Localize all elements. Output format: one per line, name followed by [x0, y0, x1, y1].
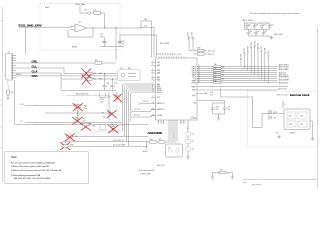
svg-text:File:: File:: [244, 182, 248, 184]
capacitor C47 (DNP): [76, 118, 80, 123]
wire clock into box: [221, 97, 263, 128]
wire y35 branch to IC: [120, 35, 157, 58]
red X over C47: [73, 117, 83, 124]
svg-text:NC7: NC7: [276, 133, 279, 135]
svg-text:R78: R78: [11, 92, 14, 94]
decap bottom rail: [249, 35, 272, 37]
red X over R68: [65, 134, 75, 141]
red X over R70: [81, 123, 91, 130]
IC U13 ADS1294R body: [156, 58, 198, 120]
svg-text:TP24: TP24: [251, 42, 253, 46]
svg-text:DIN: DIN: [194, 102, 196, 104]
svg-text:AGND: AGND: [72, 46, 78, 49]
svg-text:12: 12: [152, 96, 154, 98]
svg-text:57: 57: [175, 53, 177, 55]
red X over R66: [73, 104, 83, 111]
svg-text:C80: C80: [273, 118, 276, 120]
capacitor C41 (DNP): [100, 125, 106, 130]
svg-text:OUT: OUT: [300, 124, 303, 126]
svg-text:DOUT: DOUT: [192, 95, 196, 97]
osc pad 4: [298, 121, 307, 127]
svg-text:R75: R75: [94, 10, 97, 12]
svg-text:C81: C81: [248, 24, 251, 26]
TP DOUT circle: [205, 93, 207, 95]
junction dot output: [92, 27, 93, 28]
svg-text:55: 55: [180, 53, 182, 55]
wire ECG_RLD top: [66, 95, 109, 97]
capacitor C86: [254, 30, 258, 37]
red X over C46: [114, 94, 122, 101]
svg-text:63: 63: [160, 53, 162, 55]
wire R75 row: [80, 12, 105, 14]
capacitor C76: [119, 35, 121, 41]
IC left pin numbers: [152, 61, 154, 116]
svg-text:C82: C82: [256, 24, 259, 26]
svg-text:15: 15: [152, 114, 154, 116]
svg-text:C9: C9: [21, 121, 23, 123]
wire CRA: [16, 75, 61, 77]
resistor R77: [95, 62, 102, 65]
wire ECG row y105.5: [25, 105, 75, 107]
jumper box: [100, 93, 106, 98]
svg-text:62: 62: [162, 53, 164, 55]
svg-text:37: 37: [198, 65, 200, 67]
svg-text:C85: C85: [250, 31, 253, 33]
ground left leg: [211, 177, 215, 179]
wire DOUT to cap branch: [197, 93, 205, 95]
capacitor C67 flag: [130, 116, 132, 118]
svg-text:IN4N: IN4N: [157, 86, 160, 88]
capacitor C87: [262, 30, 266, 37]
IC top pin numbers: [157, 53, 182, 55]
svg-text:10E: 10E: [214, 72, 217, 74]
label resistor column values: [214, 64, 225, 82]
svg-text:TP27: TP27: [261, 46, 263, 50]
svg-text:AVDD_SHDN: AVDD_SHDN: [243, 19, 254, 22]
red X over R69: [61, 142, 71, 150]
svg-text:32: 32: [198, 79, 200, 81]
svg-text:MOD_CLK: MOD_CLK: [173, 132, 175, 138]
wire ECG_SHD vertical: [79, 6, 81, 14]
svg-text:RLDOUT: RLDOUT: [157, 92, 163, 94]
op-amp input stubs: [70, 26, 75, 30]
wire TP loop bottom mid: [139, 169, 154, 171]
capacitor C65 flag: [130, 110, 132, 112]
IC left pin names: [157, 62, 165, 117]
svg-text:IN1P: IN1P: [157, 62, 160, 64]
test point risers: [241, 47, 268, 83]
connector pins: [13, 56, 17, 79]
svg-text:CLK: CLK: [191, 117, 194, 119]
svg-text:R70: R70: [92, 126, 95, 128]
wire gnd rail under caps: [99, 90, 117, 92]
svg-text:C36: C36: [106, 83, 109, 85]
resistor R69 (DNP): [62, 145, 68, 148]
svg-text:C72: C72: [192, 149, 195, 151]
svg-text:61: 61: [165, 53, 167, 55]
ferrite circle: [121, 73, 124, 76]
title block top line: [242, 178, 318, 180]
svg-text:C71: C71: [192, 141, 195, 143]
svg-text:SPI_CS: SPI_CS: [208, 54, 215, 56]
wire cap bottom rail to gnd: [213, 114, 225, 118]
border tick small a: [0, 104, 3, 106]
connector J2 body: [6, 54, 13, 81]
svg-text:ADS_CLK: ADS_CLK: [157, 164, 166, 167]
svg-text:External Clock: External Clock: [290, 93, 310, 97]
svg-text:+: +: [76, 26, 77, 28]
ferrite bead L2: [88, 12, 91, 15]
ground crystal: [186, 157, 190, 159]
svg-text:R66, R64, R72, R62, C47,C41,R7: R66, R64, R72, R62, C47,C41,R70 and R69: [14, 178, 50, 180]
red X over C41: [109, 125, 119, 133]
svg-text:MOD_CLOCK: MOD_CLOCK: [277, 94, 289, 96]
resistor R66 (DNP): [75, 105, 81, 108]
osc pad 3: [287, 121, 296, 127]
wire left drop: [146, 142, 148, 149]
crystal pads: [169, 149, 173, 153]
svg-text:IN3P: IN3P: [157, 77, 160, 79]
wire CLA: [16, 73, 99, 90]
svg-text:EN: EN: [289, 115, 291, 117]
svg-text:33: 33: [198, 77, 200, 79]
svg-text:56: 56: [177, 53, 179, 55]
svg-text:SCLK: SCLK: [192, 77, 196, 79]
svg-text:C40: C40: [110, 124, 113, 126]
svg-text:PWDN: PWDN: [192, 83, 196, 85]
svg-text:R77: R77: [95, 60, 98, 62]
wire CRL shield row: [16, 62, 116, 64]
red X over R71: [82, 69, 92, 79]
junction at x141: [140, 27, 141, 28]
wire osc top: [282, 101, 284, 110]
svg-text:10E: 10E: [214, 76, 217, 78]
wire feedback drop x104: [104, 13, 106, 28]
svg-text:C65 1uF: C65 1uF: [134, 109, 140, 111]
svg-text:R59: R59: [150, 139, 153, 141]
svg-text:L60: L60: [120, 68, 123, 70]
test point TP circles above IC: [189, 39, 193, 50]
svg-text:Note:: Note:: [11, 155, 17, 159]
svg-text:22p: 22p: [216, 109, 219, 111]
capacitor C71: [186, 140, 191, 144]
capacitor C81: [245, 23, 249, 30]
svg-text:10E: 10E: [214, 80, 217, 82]
svg-text:1uF: 1uF: [100, 36, 103, 38]
IC right pin names: [191, 67, 196, 120]
svg-text:22p: 22p: [228, 109, 231, 111]
wire CLL: [16, 68, 84, 74]
decap mid rail: [245, 29, 270, 31]
svg-text:GPIO2: GPIO2: [192, 69, 196, 71]
IC bottom pin numbers: [158, 122, 189, 130]
svg-text:10E: 10E: [222, 74, 225, 76]
Note box: [5, 152, 89, 184]
wire ECG_SHD_DRV to op-amp: [19, 26, 75, 27]
svg-text:ECG_SHD: ECG_SHD: [76, 4, 86, 6]
wire shield loop left: [15, 80, 149, 125]
svg-text:TP23: TP23: [248, 46, 250, 50]
red X over C39: [107, 110, 117, 118]
wire clk out right: [190, 118, 197, 120]
wire osc right gnd: [310, 121, 313, 139]
svg-text:C46: C46: [107, 97, 110, 99]
filter module LF1: [118, 70, 141, 81]
capacitor C85: [247, 30, 251, 37]
junction caps: [218, 114, 219, 115]
right bus wires with series resistors: [197, 67, 277, 83]
wire DOUT long: [197, 89, 277, 91]
vertical x109: [108, 92, 110, 122]
connector pin circles: [11, 55, 13, 79]
osc pad 2: [298, 112, 307, 119]
resistor R67: [219, 171, 226, 173]
wire output straight to IC: [141, 28, 154, 58]
svg-text:14: 14: [152, 108, 154, 110]
ground AGND_SHDN: [270, 36, 274, 40]
svg-text:10E: 10E: [222, 70, 225, 72]
svg-text:DRDY: DRDY: [192, 90, 196, 92]
wire bottom y141.5: [62, 141, 148, 143]
ground osc right: [311, 139, 315, 141]
svg-text:4n7: 4n7: [103, 117, 106, 119]
capacitor C68: [211, 103, 215, 114]
svg-text:SPI_CLK: SPI_CLK: [208, 51, 216, 53]
svg-text:10n: 10n: [82, 120, 85, 122]
wire y131: [95, 130, 122, 132]
svg-text:LP2: LP2: [78, 22, 81, 24]
wire y122.5 stub: [36, 122, 37, 123]
svg-text:58: 58: [172, 53, 174, 55]
capacitor C84: [268, 23, 272, 30]
wire DRDY branch down: [220, 87, 222, 90]
capacitor C46 (DNP): [115, 92, 119, 100]
resistor R75: [94, 12, 101, 15]
resistor R70 (DNP): [83, 123, 89, 126]
red X over R62: [82, 75, 91, 85]
right net labels: [279, 63, 289, 84]
shield pigtail symbol: [7, 81, 9, 89]
wire osc left pins: [262, 114, 284, 128]
ground caps: [217, 118, 221, 120]
svg-text:60: 60: [167, 53, 169, 55]
wire bottom y136: [73, 135, 149, 137]
capacitor C70: [186, 132, 191, 136]
svg-text:ADS1294R: ADS1294R: [148, 131, 164, 135]
svg-text:Place the decoupling capacitor: Place the decoupling capacitors close to…: [250, 12, 299, 15]
riser rotated labels: [241, 41, 270, 58]
svg-text:C74: C74: [84, 10, 87, 12]
svg-text:GPIO1: GPIO1: [192, 67, 196, 69]
wire mid row y113: [45, 112, 109, 114]
capacitor C38: [111, 79, 115, 91]
svg-text:WCT: WCT: [157, 97, 160, 99]
svg-text:31: 31: [198, 75, 200, 77]
junction dot: [104, 27, 105, 28]
svg-text:R61: R61: [159, 139, 162, 141]
svg-text:CLKSEL JUMP: CLKSEL JUMP: [140, 174, 150, 176]
svg-text:ADS_START: ADS_START: [279, 68, 289, 71]
svg-text:TP29: TP29: [268, 50, 270, 54]
svg-text:ECG_RLD_IN: ECG_RLD_IN: [113, 140, 124, 142]
border tick right: [316, 29, 318, 31]
svg-text:3) Make following components T: 3) Make following components TBA: [11, 174, 41, 177]
svg-text:59: 59: [170, 53, 172, 55]
series resistors column: [214, 66, 222, 84]
wire ECG_SHD_DRV down to connector: [25, 27, 27, 54]
svg-text:TP25: TP25: [254, 41, 256, 45]
page right border: [317, 26, 319, 188]
wire clock source vert: [220, 90, 222, 97]
svg-text:TP28: TP28: [265, 48, 267, 52]
wire DIN path: [197, 101, 225, 104]
bottom RC circuit wire: [213, 173, 233, 178]
svg-text:SHIELD: SHIELD: [16, 74, 22, 76]
svg-text:1uF: 1uF: [210, 95, 213, 97]
pin number smudge column: [198, 65, 200, 83]
ground osc left: [277, 135, 281, 139]
resistor R78 shield: [7, 90, 10, 95]
svg-text:10: 10: [152, 89, 154, 91]
svg-text:J2: J2: [8, 52, 10, 54]
junction dots rail: [252, 23, 253, 24]
border tick 1: [0, 20, 3, 22]
wire DRDY long: [197, 86, 288, 88]
power flag circles: [268, 110, 271, 113]
ground rail AGND: [100, 46, 124, 48]
svg-text:IN1N: IN1N: [157, 65, 160, 67]
svg-text:40: 40: [198, 71, 200, 73]
page left border: [2, 7, 4, 183]
filter bars: [128, 73, 136, 77]
oscillator module box: [284, 109, 310, 130]
svg-text:1uF: 1uF: [122, 43, 125, 45]
capacitor C69: [223, 103, 227, 114]
wire output branch up y21: [141, 21, 152, 58]
ground right leg: [231, 177, 235, 179]
svg-text:ADS_DOUT: ADS_DOUT: [278, 87, 287, 90]
wire R71 to filter: [92, 73, 118, 75]
svg-text:C39: C39: [101, 113, 104, 115]
svg-text:10E: 10E: [222, 78, 225, 80]
wire feedback loop: [68, 28, 93, 37]
resistor R71 (DNP): [86, 72, 93, 75]
wire y121.5: [25, 121, 122, 123]
DA1 shield-driver dashed box: [40, 4, 120, 51]
wire right column x188: [187, 131, 189, 157]
resistor R59: [150, 141, 157, 143]
crystal Y1 body: [166, 144, 183, 157]
wire op-amp output: [87, 27, 142, 29]
svg-text:34: 34: [198, 73, 200, 75]
decap rail top: [245, 22, 270, 30]
svg-text:X2: X2: [284, 104, 286, 106]
svg-text:R58: R58: [144, 19, 147, 21]
SPI wire SCLK: [189, 50, 207, 52]
svg-text:RESET: RESET: [191, 87, 196, 89]
svg-text:C87: C87: [265, 31, 268, 33]
IC left pin stubs: [151, 63, 156, 116]
wire shield drive down x116: [115, 28, 117, 61]
svg-text:C83: C83: [263, 24, 266, 26]
capacitor C83: [260, 23, 264, 30]
svg-text:Y1: Y1: [168, 148, 170, 150]
svg-text:IN2N: IN2N: [157, 73, 160, 75]
svg-text:R60: R60: [128, 68, 131, 70]
IC top pin ticks: [159, 56, 184, 58]
border tick small b: [0, 126, 3, 128]
svg-text:64: 64: [157, 53, 159, 55]
svg-text:ADS_PWDN: ADS_PWDN: [279, 76, 289, 79]
svg-text:C38: C38: [114, 83, 117, 85]
osc pad 1: [287, 112, 296, 119]
svg-text:C86: C86: [257, 31, 260, 33]
SPI wire SDA: [193, 53, 207, 55]
svg-text:ECG_RLD_REF: ECG_RLD_REF: [113, 145, 125, 147]
wire R66 vertical: [77, 104, 79, 118]
svg-text:R56: R56: [198, 48, 201, 50]
svg-text:R55: R55: [100, 101, 103, 103]
svg-text:C64 1uF: C64 1uF: [143, 101, 149, 103]
op-amp U?A: [75, 24, 87, 32]
svg-text:IN2P: IN2P: [157, 70, 160, 72]
svg-text:IN3N: IN3N: [157, 80, 160, 82]
svg-text:C63: C63: [144, 26, 147, 28]
capacitor C75 on feedback: [104, 37, 106, 41]
border tick 3: [0, 147, 3, 149]
svg-text:For two channel ECG. Do the fo: For two channel ECG. Do the following mo…: [11, 161, 55, 164]
svg-text:RLDIN: RLDIN: [157, 88, 161, 90]
svg-text:CLKSEL: CLKSEL: [157, 115, 163, 117]
svg-text:C84: C84: [271, 24, 274, 26]
capacitor C72: [186, 147, 191, 151]
svg-text:CS: CS: [194, 79, 196, 81]
svg-text:ADS_DRDY: ADS_DRDY: [279, 81, 289, 84]
svg-text:C70: C70: [192, 134, 195, 136]
svg-text:GPIO3: GPIO3: [192, 71, 196, 73]
svg-text:TP22: TP22: [244, 48, 246, 52]
resistor R61: [159, 141, 166, 143]
resistor R68 (DNP): [67, 135, 73, 138]
svg-text:IN4P: IN4P: [157, 84, 160, 86]
svg-text:10E: 10E: [222, 66, 225, 68]
svg-text:C67 1uF: C67 1uF: [134, 115, 140, 117]
IC bottom pin stubs: [159, 120, 189, 143]
wire bottom y147: [68, 145, 148, 147]
svg-text:TP26: TP26: [258, 43, 260, 47]
svg-text:10E: 10E: [214, 68, 217, 70]
svg-text:ECG_RLD_OUT: ECG_RLD_OUT: [76, 93, 88, 95]
wire R78 gnd: [7, 95, 10, 99]
svg-text:2) Mount 0 Ohm resistors in pl: 2) Mount 0 Ohm resistors in place of C46…: [11, 169, 61, 172]
svg-text:13: 13: [152, 102, 154, 104]
External Clock dashed box: [248, 91, 319, 147]
capacitor C64 flag: [138, 102, 140, 104]
wire cap top rail: [213, 102, 225, 104]
capacitor C36: [103, 74, 107, 91]
capacitor C39 (DNP): [109, 111, 113, 117]
svg-text:R67: R67: [220, 169, 223, 171]
svg-text:ecg_afe.sch: ecg_afe.sch: [252, 184, 261, 186]
svg-text:ADS_RESET: ADS_RESET: [279, 79, 289, 82]
svg-text:ADS_SHDN: ADS_SHDN: [160, 42, 170, 45]
svg-text:1) Mount 47K resistor in place: 1) Mount 47K resistor in place of R71 an…: [11, 165, 49, 168]
capacitor C82: [253, 23, 257, 30]
svg-text:10E: 10E: [214, 64, 217, 66]
border tick 2: [0, 99, 3, 101]
bus corner wires IC to verticals: [123, 84, 156, 131]
svg-text:TP21: TP21: [241, 54, 243, 58]
